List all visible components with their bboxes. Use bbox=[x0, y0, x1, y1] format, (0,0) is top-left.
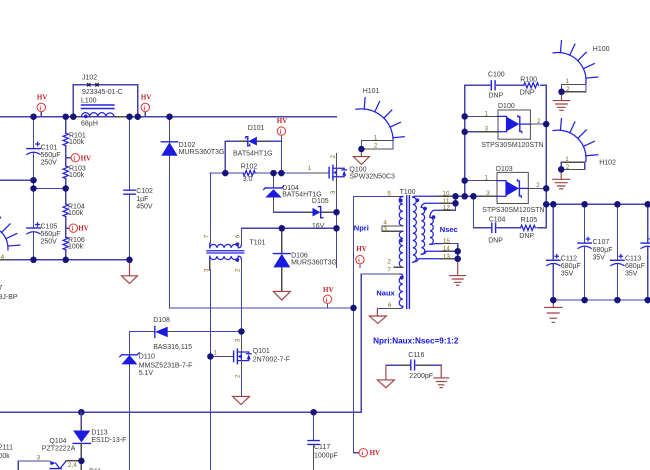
svg-text:C113: C113 bbox=[625, 255, 641, 262]
svg-text:MURS360T3G: MURS360T3G bbox=[291, 259, 337, 266]
svg-text:7: 7 bbox=[387, 266, 391, 273]
svg-text:C102: C102 bbox=[136, 188, 153, 195]
capacitor C102 bbox=[124, 188, 153, 210]
junction dot D108/Q101 drain bbox=[238, 328, 245, 335]
svg-text:1: 1 bbox=[566, 78, 570, 85]
junction dot H102 bbox=[558, 166, 565, 173]
svg-text:2: 2 bbox=[536, 182, 540, 189]
svg-text:T101: T101 bbox=[250, 239, 266, 246]
capacitor C105 bbox=[27, 223, 61, 246]
junction dot Q101 gate bbox=[207, 353, 214, 360]
resistor R100 (DNP) bbox=[520, 77, 546, 97]
port HV (after L100) bbox=[141, 93, 152, 116]
wire mid-left feed bbox=[0, 179, 34, 181]
svg-text:DNP: DNP bbox=[520, 89, 535, 96]
wire C102 column bbox=[129, 117, 131, 260]
svg-text:HV: HV bbox=[277, 117, 288, 125]
ground (under Q101) bbox=[233, 396, 250, 404]
svg-text:R102: R102 bbox=[241, 163, 258, 170]
svg-text:00k: 00k bbox=[0, 453, 10, 460]
svg-text:3: 3 bbox=[486, 190, 490, 197]
wire bottom-left rail bbox=[0, 259, 130, 261]
svg-text:1000pF: 1000pF bbox=[314, 453, 338, 460]
svg-text:MURS360T3G: MURS360T3G bbox=[179, 149, 225, 156]
capacitor C100 (DNP) bbox=[465, 72, 524, 100]
svg-text:1: 1 bbox=[485, 110, 489, 117]
svg-text:DNP: DNP bbox=[488, 93, 503, 100]
svg-text:2: 2 bbox=[374, 143, 378, 150]
junction dots (output rails) bbox=[543, 201, 650, 303]
svg-text:6: 6 bbox=[388, 302, 392, 309]
svg-text:L100: L100 bbox=[81, 98, 97, 105]
capacitor C117 bbox=[308, 412, 338, 470]
svg-text:STPS30SM120STN: STPS30SM120STN bbox=[481, 142, 543, 149]
svg-text:BAT54HT1G: BAT54HT1G bbox=[233, 150, 273, 157]
svg-text:J102: J102 bbox=[82, 74, 97, 81]
diode D110 (zener 5.1V) bbox=[120, 332, 193, 470]
port HV (R101/R103 divider) bbox=[66, 154, 91, 163]
port HV (T100 pin2) bbox=[356, 245, 367, 267]
junction dot (HV column) bbox=[350, 305, 357, 312]
svg-text:13: 13 bbox=[443, 253, 451, 260]
ground (earth, H102) bbox=[553, 169, 570, 188]
junction dots (Nsec) bbox=[452, 193, 461, 262]
svg-text:1: 1 bbox=[374, 135, 378, 142]
svg-text:2: 2 bbox=[330, 155, 337, 159]
svg-text:7: 7 bbox=[0, 285, 3, 292]
resistor R106 bbox=[63, 237, 85, 251]
svg-text:2N7002-7-F: 2N7002-7-F bbox=[253, 356, 290, 363]
junction dot H100 bbox=[558, 89, 565, 96]
junction dot Q104 collector bbox=[78, 458, 85, 465]
svg-text:H100: H100 bbox=[593, 46, 610, 53]
wire J102 loop bbox=[73, 85, 137, 117]
wire divider link bbox=[34, 188, 66, 190]
svg-text:250V: 250V bbox=[41, 239, 58, 246]
wire rectifier right column bbox=[537, 85, 546, 228]
wire T101 pin3 column down bbox=[209, 270, 211, 470]
svg-text:3.0: 3.0 bbox=[243, 176, 253, 183]
svg-text:C101: C101 bbox=[41, 144, 58, 151]
svg-text:Npri: Npri bbox=[354, 223, 369, 232]
port HV (clamp top) bbox=[277, 117, 288, 141]
svg-text:1: 1 bbox=[485, 175, 489, 182]
svg-text:560µF: 560µF bbox=[41, 231, 61, 238]
svg-text:14: 14 bbox=[443, 246, 451, 253]
capacitor C107 bbox=[578, 204, 613, 300]
capacitor C112 bbox=[547, 204, 581, 300]
svg-text:Naux: Naux bbox=[376, 288, 395, 297]
port HV (input left) bbox=[37, 93, 48, 116]
svg-text:R105: R105 bbox=[521, 217, 538, 224]
diode D104 bbox=[264, 173, 322, 212]
svg-text:2: 2 bbox=[566, 86, 570, 93]
svg-text:5.1V: 5.1V bbox=[139, 370, 154, 377]
svg-text:HV: HV bbox=[78, 225, 89, 233]
port HV (bottom, Npri start) bbox=[359, 449, 380, 458]
transistor Q100 bbox=[329, 165, 395, 180]
pin 4 of off-sheet bridge bbox=[0, 259, 10, 261]
svg-text:C116: C116 bbox=[408, 352, 424, 359]
svg-text:HV: HV bbox=[141, 93, 152, 101]
capacitor C104 (DNP) bbox=[488, 216, 520, 244]
svg-text:450V: 450V bbox=[136, 204, 153, 211]
transformer T100 bbox=[354, 189, 454, 309]
svg-text:35V: 35V bbox=[625, 271, 638, 278]
connector J102 pin marks bbox=[87, 83, 99, 86]
wire primary return row (D102 to HV drop) bbox=[170, 307, 354, 309]
svg-text:HV: HV bbox=[356, 245, 367, 253]
svg-text:923345-01-C: 923345-01-C bbox=[82, 89, 123, 96]
mounting hole H100 bbox=[553, 41, 610, 93]
svg-text:C100: C100 bbox=[488, 72, 505, 79]
wire T101 pin6 to Q100 source bbox=[241, 228, 336, 235]
wire T101 pin7 drop bbox=[209, 173, 211, 233]
capacitor C101 bbox=[27, 142, 61, 167]
wire Nsec pins 13-15 tie bbox=[452, 244, 458, 259]
svg-text:T100: T100 bbox=[400, 189, 416, 196]
diode D105 (zener 16V) bbox=[303, 198, 337, 230]
svg-text:2,4: 2,4 bbox=[68, 462, 77, 469]
wire C104 branch bbox=[473, 196, 490, 228]
svg-text:D100: D100 bbox=[498, 103, 515, 110]
wire D101 clamp loop bbox=[225, 141, 281, 173]
svg-text:2200pF: 2200pF bbox=[409, 373, 433, 380]
svg-text:H101: H101 bbox=[363, 88, 380, 95]
wire R101/R103 column bbox=[65, 117, 67, 260]
svg-text:DNP: DNP bbox=[519, 233, 534, 240]
svg-text:3: 3 bbox=[37, 454, 41, 461]
svg-text:Npri:Naux:Nsec=9:1:2: Npri:Naux:Nsec=9:1:2 bbox=[373, 337, 459, 346]
pin 2 drain Q100 bbox=[336, 154, 338, 169]
svg-text:680µF: 680µF bbox=[625, 263, 645, 270]
wire snubber row (R102 line) bbox=[210, 172, 311, 174]
svg-text:10: 10 bbox=[443, 191, 451, 198]
svg-text:HV: HV bbox=[81, 154, 92, 162]
ground (earth, Nsec return) bbox=[450, 259, 466, 285]
svg-text:100k: 100k bbox=[69, 172, 85, 179]
svg-text:PZT2222A: PZT2222A bbox=[42, 446, 76, 453]
svg-text:2: 2 bbox=[387, 259, 391, 266]
svg-text:6: 6 bbox=[235, 234, 242, 238]
svg-text:HV: HV bbox=[323, 286, 334, 294]
wire gate pin feed Q100 bbox=[311, 172, 329, 174]
mounting hole H102 bbox=[553, 118, 616, 170]
svg-text:C117: C117 bbox=[314, 444, 330, 451]
svg-text:SPW32N50C3: SPW32N50C3 bbox=[349, 173, 395, 180]
port HV (R104/R106 divider) bbox=[66, 224, 89, 233]
diode D101 bbox=[233, 125, 273, 158]
transistor Q104 (clipped at bottom) bbox=[18, 438, 78, 470]
svg-text:C105: C105 bbox=[41, 223, 58, 230]
diode D103 bbox=[465, 166, 547, 214]
svg-text:12: 12 bbox=[443, 205, 451, 212]
wire D105 row bbox=[274, 211, 304, 213]
svg-text:HV: HV bbox=[370, 449, 381, 457]
svg-text:C112: C112 bbox=[561, 255, 577, 262]
ground (earth, output) bbox=[545, 300, 563, 322]
svg-text:560µF: 560µF bbox=[41, 152, 61, 159]
svg-text:D105: D105 bbox=[312, 198, 329, 205]
svg-text:2: 2 bbox=[234, 374, 241, 378]
svg-text:D103: D103 bbox=[496, 166, 513, 173]
svg-text:C104: C104 bbox=[489, 216, 506, 223]
mounting hole H101 bbox=[356, 88, 404, 150]
junction dots (lower rail) bbox=[78, 409, 317, 416]
junction dot H101 bbox=[358, 146, 365, 153]
svg-text:R100: R100 bbox=[520, 77, 537, 84]
svg-text:D108: D108 bbox=[153, 317, 170, 324]
ground (power gnd under C102) bbox=[122, 260, 138, 284]
svg-text:D110: D110 bbox=[139, 354, 155, 361]
wire T101 pin2 / Q101 drain column bbox=[240, 270, 242, 336]
wire Naux pin7 down and lower rail bbox=[0, 274, 361, 412]
mounting hole arc (left edge, clipped) bbox=[0, 214, 20, 250]
svg-text:Q101: Q101 bbox=[253, 348, 270, 355]
wire Q100 source column bbox=[336, 196, 338, 267]
ground (under D106) bbox=[273, 291, 290, 300]
diode D102 bbox=[161, 117, 224, 308]
svg-text:3: 3 bbox=[330, 190, 337, 194]
ground (under Naux pin6) bbox=[369, 309, 386, 324]
junction dots (rectifier) bbox=[461, 113, 549, 199]
diode D100 bbox=[465, 103, 547, 149]
capacitor C116 bbox=[386, 352, 441, 380]
svg-text:D113: D113 bbox=[91, 430, 107, 437]
svg-text:100k: 100k bbox=[69, 139, 85, 146]
resistor R101 bbox=[63, 133, 86, 147]
diode D106 bbox=[273, 228, 337, 291]
pin 3 drain Q101 bbox=[240, 336, 242, 352]
svg-text:15: 15 bbox=[443, 238, 451, 245]
svg-text:100k: 100k bbox=[68, 243, 84, 250]
svg-text:1µF: 1µF bbox=[136, 196, 148, 203]
svg-text:C107: C107 bbox=[593, 239, 610, 246]
inductor L100 bbox=[73, 98, 129, 128]
wire T100 pin5 to HV column bbox=[354, 197, 360, 453]
wire C101/C105 column bbox=[33, 117, 35, 260]
ground (C116 left) bbox=[377, 365, 394, 387]
svg-text:3: 3 bbox=[485, 126, 489, 133]
svg-text:2: 2 bbox=[537, 118, 541, 125]
svg-text:H102: H102 bbox=[599, 159, 616, 166]
svg-text:Nsec: Nsec bbox=[440, 225, 458, 234]
wire Q101 source to ground bbox=[240, 372, 242, 396]
svg-text:DNP: DNP bbox=[488, 237, 503, 244]
svg-text:ES1D-13-F: ES1D-13-F bbox=[91, 437, 126, 444]
pin 3 source Q100 bbox=[336, 177, 338, 196]
svg-text:MMSZ5231B-7-F: MMSZ5231B-7-F bbox=[139, 362, 193, 369]
svg-text:35V: 35V bbox=[561, 271, 574, 278]
svg-text:3: 3 bbox=[234, 338, 241, 342]
capacitor C118 (clipped at right edge) bbox=[641, 204, 650, 300]
wire output bottom rail bbox=[553, 299, 650, 301]
svg-text:4: 4 bbox=[1, 254, 5, 261]
wire Q101 gate feed bbox=[210, 356, 222, 358]
transformer T101 bbox=[204, 233, 266, 272]
wire Nsec pins 10-12 tie bbox=[452, 196, 473, 210]
svg-text:1: 1 bbox=[308, 165, 312, 172]
svg-text:1: 1 bbox=[213, 349, 217, 356]
junction dots (input area) bbox=[30, 113, 173, 263]
svg-text:2: 2 bbox=[566, 164, 570, 171]
svg-text:7: 7 bbox=[204, 234, 211, 238]
svg-text:680µF: 680µF bbox=[593, 247, 613, 254]
wire output top rail bbox=[546, 203, 650, 205]
svg-text:3: 3 bbox=[383, 226, 387, 233]
resistor R102 bbox=[241, 163, 258, 183]
svg-text:8J-BP: 8J-BP bbox=[0, 294, 18, 301]
transistor Q101 bbox=[234, 348, 290, 364]
resistor R104 bbox=[63, 204, 85, 217]
svg-text:Q104: Q104 bbox=[49, 438, 66, 445]
svg-text:250V: 250V bbox=[41, 160, 58, 167]
svg-text:35V: 35V bbox=[593, 254, 606, 261]
svg-text:BAS316,115: BAS316,115 bbox=[153, 344, 192, 351]
port HV (primary return) bbox=[323, 286, 334, 308]
svg-text:100k: 100k bbox=[68, 210, 84, 217]
svg-text:D101: D101 bbox=[248, 125, 265, 132]
diode D108 bbox=[130, 317, 242, 351]
pin 2 source Q101 bbox=[240, 361, 242, 372]
capacitor C113 bbox=[611, 204, 645, 300]
wire main top rail bbox=[0, 116, 337, 118]
ground (earth, H100) bbox=[553, 92, 569, 111]
svg-text:68µH: 68µH bbox=[81, 121, 98, 128]
svg-text:3: 3 bbox=[204, 268, 211, 272]
resistor R103 bbox=[63, 166, 86, 180]
junction dots (snubber/primary area) bbox=[222, 170, 340, 232]
svg-text:1: 1 bbox=[565, 156, 569, 163]
diode D113 bbox=[73, 412, 126, 470]
wire rectifier left column bbox=[464, 85, 466, 196]
resistor R105 (DNP) bbox=[519, 217, 537, 240]
svg-text:HV: HV bbox=[37, 93, 48, 101]
ground (under H101) bbox=[353, 149, 369, 165]
ground (earth, C116 right) bbox=[434, 365, 449, 387]
svg-text:2111: 2111 bbox=[0, 444, 13, 451]
svg-text:680µF: 680µF bbox=[561, 263, 581, 270]
svg-text:2: 2 bbox=[235, 268, 242, 272]
svg-text:STPS30SM120STN: STPS30SM120STN bbox=[482, 207, 544, 214]
svg-text:5: 5 bbox=[387, 190, 391, 197]
